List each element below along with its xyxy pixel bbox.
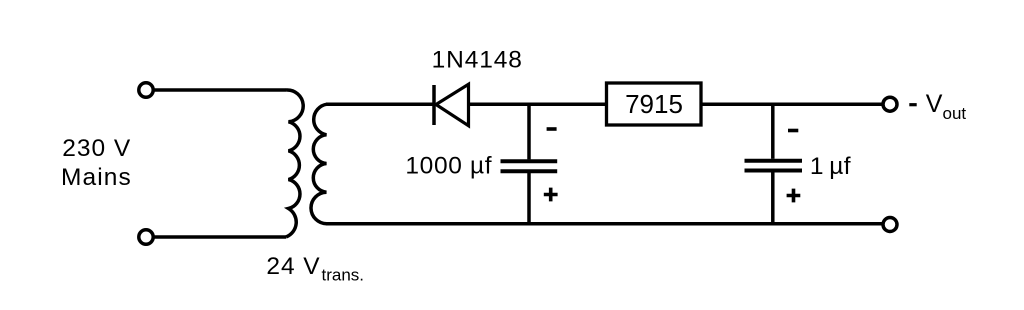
node C1 top / wire down — [527, 104, 531, 159]
svg-text:24 V: 24 V — [266, 253, 320, 280]
label -Vout minus — [909, 103, 916, 106]
label C1 plus — [544, 188, 558, 202]
terminal output bottom — [883, 218, 897, 232]
regulator U1 7915 box — [607, 83, 702, 125]
label C2 minus — [788, 129, 798, 133]
transformer T1 primary winding — [286, 90, 303, 237]
wire diode to regulator — [469, 102, 607, 106]
wire primary bottom — [153, 235, 286, 239]
capacitor C1 bottom plate — [501, 169, 558, 173]
terminal mains top — [139, 83, 153, 97]
diode D1 cathode bar — [432, 85, 436, 125]
svg-text:1 µf: 1 µf — [810, 153, 851, 180]
label C1 minus — [547, 127, 557, 131]
diode D1 triangle — [436, 84, 469, 125]
wire C1 bottom — [527, 173, 531, 224]
svg-text:trans.: trans. — [322, 266, 365, 285]
terminal mains bottom — [139, 230, 153, 244]
label C2 plus — [787, 189, 801, 203]
svg-text:Mains: Mains — [61, 164, 132, 191]
capacitor C2 top plate — [745, 159, 803, 163]
wire bottom rail — [326, 222, 883, 226]
svg-text:1N4148: 1N4148 — [432, 47, 523, 74]
svg-text:1000 µf: 1000 µf — [405, 153, 492, 180]
terminal output top — [883, 97, 897, 111]
wire secondary top to diode — [326, 102, 434, 106]
svg-text:V: V — [926, 90, 943, 118]
svg-text:230 V: 230 V — [62, 135, 131, 162]
wire regulator to output terminal — [701, 102, 883, 106]
wire primary top — [153, 88, 286, 92]
svg-text:7915: 7915 — [625, 89, 683, 119]
capacitor C2 bottom plate — [745, 169, 803, 173]
transformer T1 secondary winding — [311, 104, 327, 224]
svg-text:out: out — [943, 104, 967, 123]
node C2 top / wire down — [771, 104, 775, 159]
capacitor C1 top plate — [501, 159, 558, 163]
wire C2 bottom — [771, 172, 775, 223]
